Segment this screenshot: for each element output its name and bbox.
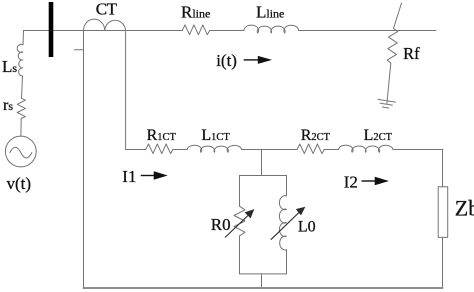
current arrow I1 <box>141 172 166 179</box>
svg-text:I1: I1 <box>122 167 136 186</box>
wire right vertical to Zb <box>442 150 444 289</box>
inductor Ls <box>17 44 23 76</box>
L0 arrow <box>271 208 305 240</box>
wire parallel box right edge lower <box>286 250 288 274</box>
resistor Rf slanted fault branch <box>387 3 402 104</box>
wire middle branch <box>126 149 443 151</box>
svg-text:v(t): v(t) <box>7 174 32 193</box>
svg-text:R0: R0 <box>211 215 231 234</box>
CT winding arcs <box>84 19 126 30</box>
inductor L0 <box>279 196 286 250</box>
CT polarity tick <box>75 49 84 51</box>
wire box bottom stub <box>261 274 263 288</box>
resistor rs <box>17 98 25 118</box>
resistor R2CT <box>297 144 324 154</box>
inductor Lline <box>244 25 299 33</box>
impedance Zb <box>438 187 448 238</box>
svg-text:L0: L0 <box>298 219 316 236</box>
CT left secondary wire <box>83 31 85 289</box>
svg-text:Zb: Zb <box>455 196 474 221</box>
R0 arrow <box>225 210 253 238</box>
current arrow I2 <box>362 178 387 185</box>
wire parallel box bottom edge <box>240 273 287 275</box>
resistor R0 <box>234 206 245 236</box>
wire parallel box right edge upper <box>286 176 288 197</box>
inductor L1CT <box>187 145 242 152</box>
resistor Rline <box>182 25 209 35</box>
wire source branch vertical <box>21 31 24 137</box>
wire top horizontal <box>24 30 437 32</box>
wire parallel box left edge upper <box>239 176 241 207</box>
wire bottom horizontal <box>84 287 443 289</box>
wire parallel box left edge lower <box>239 236 241 274</box>
svg-text:CT: CT <box>96 0 118 18</box>
svg-text:i(t): i(t) <box>216 51 237 70</box>
wire junction stub to parallel box <box>261 150 263 176</box>
resistor R1CT <box>146 144 173 154</box>
ground <box>377 99 395 108</box>
source v(t) <box>5 136 36 167</box>
wire parallel box top edge <box>240 175 287 177</box>
CT right secondary wire <box>125 31 127 150</box>
svg-text:Rf: Rf <box>403 44 420 63</box>
svg-text:I2: I2 <box>344 172 358 191</box>
bus bar <box>49 2 54 57</box>
current arrow i(t) <box>244 57 270 63</box>
svg-text:rs: rs <box>3 97 13 114</box>
inductor L2CT <box>339 145 394 152</box>
